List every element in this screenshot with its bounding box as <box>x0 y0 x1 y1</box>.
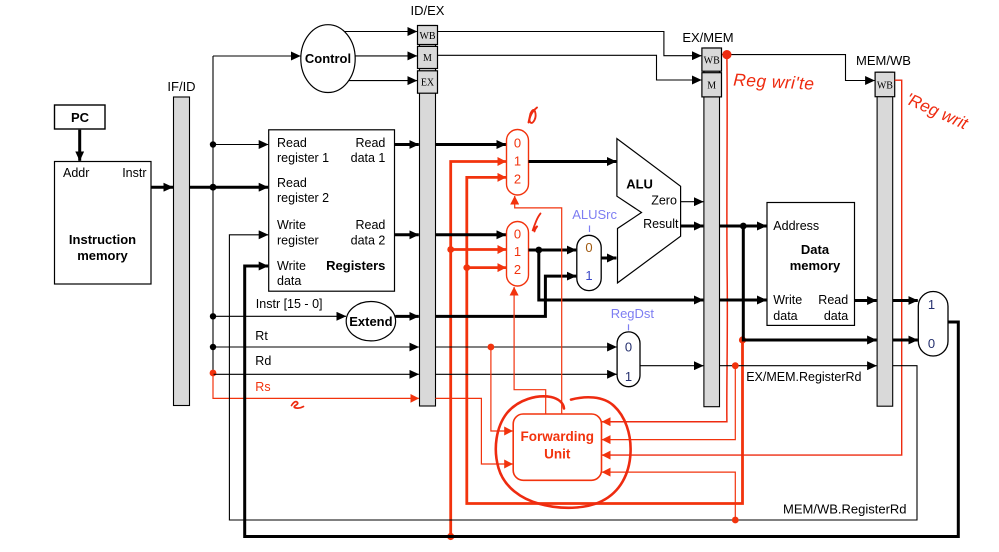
RegDst mux <box>617 332 640 387</box>
pipeline register IF/ID <box>174 97 190 406</box>
node red junction mux B input 1 <box>447 246 454 253</box>
registers box <box>269 130 395 291</box>
wire ForwardA select to mux A <box>515 196 562 414</box>
svg-text:1: 1 <box>928 297 935 312</box>
svg-text:Addr: Addr <box>63 166 89 180</box>
node red junction MEM/WB.RegisterRd tap <box>732 517 739 524</box>
svg-text:1: 1 <box>585 268 592 283</box>
wire ForwardB select to mux B <box>514 287 546 414</box>
svg-text:Reg wri'te: Reg wri'te <box>733 70 815 94</box>
wire writeback loop to registers write data <box>245 266 959 537</box>
control unit oval <box>301 25 355 93</box>
ALUSrc mux <box>577 235 601 290</box>
node red junction Rt forward tap <box>488 344 495 351</box>
svg-text:data: data <box>773 309 797 323</box>
svg-text:ALUSrc: ALUSrc <box>572 207 617 222</box>
svg-text:RegDst: RegDst <box>611 306 655 321</box>
node junction Rs red <box>210 370 217 377</box>
wire store data down to EX/MEM <box>539 250 704 300</box>
wire Control to ID/EX WB <box>344 31 417 33</box>
svg-text:0: 0 <box>928 336 935 351</box>
wire ALU result pass to MEM/WB <box>743 226 876 340</box>
hand red dot on EX/MEM WB output <box>722 50 731 59</box>
ID/EX EX field box <box>418 71 438 93</box>
svg-text:Read: Read <box>818 293 848 307</box>
wire branch to mux B input 1 <box>451 248 506 251</box>
PC box <box>55 105 106 129</box>
pipeline register EX/MEM <box>704 48 720 407</box>
wire ALU Zero to EX/MEM <box>681 201 704 203</box>
svg-text:Rd: Rd <box>255 354 271 368</box>
wire RegDst output to EX/MEM <box>640 365 703 367</box>
wire mux B output to ALUSrc mux input 0 <box>529 249 577 252</box>
wire ID/EX M to EX/MEM M <box>438 55 702 80</box>
node instruction bus junction <box>210 184 217 191</box>
MEM/WB WB field box <box>875 72 895 97</box>
wire extend output through ID/EX to ALUSrc input 1 <box>395 315 419 318</box>
svg-text:Registers: Registers <box>326 258 385 273</box>
svg-text:ID/EX: ID/EX <box>411 3 445 18</box>
wire MEM/WB read data to writeback mux 1 <box>893 299 918 302</box>
svg-text:MEM/WB: MEM/WB <box>856 53 911 68</box>
wire ALUSrc output to ALU <box>601 257 616 260</box>
wire Rd to ID/EX <box>213 373 419 375</box>
wire Rs red to ID/EX <box>213 373 419 398</box>
svg-text:Instr [15 - 0]: Instr [15 - 0] <box>256 297 323 311</box>
hand wire RegWrite MEM/WB down to forwarding unit <box>602 80 902 455</box>
svg-text:Forwarding: Forwarding <box>521 429 595 444</box>
wire MEM/WB.RegisterRd tap up to forwarding unit <box>602 472 735 520</box>
ID/EX M field box <box>418 46 438 68</box>
svg-text:M: M <box>707 81 716 92</box>
node junction on address wire <box>740 223 747 230</box>
svg-text:WB: WB <box>704 56 720 67</box>
svg-text:0: 0 <box>585 240 592 255</box>
EX/MEM M field box <box>702 73 722 97</box>
svg-text:register 2: register 2 <box>277 191 329 205</box>
svg-text:data 1: data 1 <box>351 151 386 165</box>
svg-text:data: data <box>824 309 848 323</box>
pipeline register ID/EX <box>420 26 436 407</box>
wire MEM/WB.RegisterRd loop to write register <box>229 235 917 520</box>
wire MEM/WB forward value (thick red) to mux inputs 1 <box>451 162 506 537</box>
forwarding unit box <box>513 414 601 480</box>
svg-text:2: 2 <box>514 172 521 187</box>
wire EX/MEM address to data memory <box>720 225 767 228</box>
hand tick right of mux B <box>533 214 541 232</box>
wire Rs right of ID/EX down to forwarding unit <box>436 398 513 464</box>
svg-text:IF/ID: IF/ID <box>167 79 195 94</box>
wire EX/MEM.RegisterRd to MEM/WB <box>720 365 877 367</box>
svg-text:1: 1 <box>514 244 521 259</box>
svg-text:WB: WB <box>877 81 893 92</box>
svg-text:Rt: Rt <box>255 329 268 343</box>
svg-text:register: register <box>277 234 319 248</box>
wire bus to Read register 1 <box>213 144 268 146</box>
instruction memory <box>55 162 152 285</box>
svg-text:MEM/WB.RegisterRd: MEM/WB.RegisterRd <box>783 502 907 517</box>
wire mux A output to ALU <box>529 160 617 163</box>
svg-text:Write: Write <box>277 259 306 273</box>
svg-text:Read: Read <box>356 218 386 232</box>
wire Rd right of ID/EX to RegDst 1 <box>436 373 617 375</box>
svg-text:EX/MEM.RegisterRd: EX/MEM.RegisterRd <box>746 370 861 384</box>
svg-text:data: data <box>277 274 301 288</box>
svg-text:1: 1 <box>625 369 632 384</box>
sign extend oval <box>346 302 395 341</box>
svg-text:EX/MEM: EX/MEM <box>682 30 733 45</box>
svg-text:Instr: Instr <box>122 166 146 180</box>
node red junction EX/MEM.RegisterRd tap <box>732 362 739 369</box>
ID/EX WB field box <box>418 26 438 45</box>
wire instruction bus IF/ID to Read register 2 <box>190 186 269 189</box>
wire Control to ID/EX EX <box>349 80 417 82</box>
svg-text:memory: memory <box>790 258 841 273</box>
wire EX/MEM forward value (thick red) to mux inputs 2 <box>467 177 743 503</box>
svg-text:Address: Address <box>773 219 819 233</box>
node red junction on writeback line <box>447 533 454 540</box>
wire PC to Instruction memory <box>78 130 81 161</box>
node red junction on EX/MEM result line <box>739 336 746 343</box>
wire Control to ID/EX M <box>355 55 417 57</box>
wire Read data 1 to ID/EX <box>395 143 419 146</box>
wire ID/EX WB to EX/MEM WB <box>438 32 702 56</box>
wire instruction memory to IF/ID <box>151 186 173 189</box>
wire read data to MEM/WB <box>855 299 877 302</box>
wire EX/MEM write data to data memory <box>720 299 767 302</box>
node red junction mux B input 2 <box>463 264 470 271</box>
forward mux A <box>507 130 529 196</box>
node junction instr 15-0 <box>210 313 216 319</box>
wire Rt right of ID/EX to RegDst 0 <box>436 346 617 348</box>
svg-text:ALU: ALU <box>626 177 653 192</box>
svg-text:Read: Read <box>277 136 307 150</box>
svg-text:0: 0 <box>514 227 521 242</box>
wire RegDst label tick <box>628 324 630 330</box>
svg-text:PC: PC <box>71 110 90 125</box>
svg-text:Instruction: Instruction <box>69 232 136 247</box>
svg-text:Control: Control <box>305 51 351 66</box>
hand squiggle on Rs wire <box>292 402 304 408</box>
ALU <box>617 139 681 283</box>
wire Rt to ID/EX <box>213 346 419 348</box>
svg-text:0: 0 <box>625 340 632 355</box>
wire branch to mux B input 2 <box>467 266 506 269</box>
svg-text:1: 1 <box>514 154 521 169</box>
svg-text:M: M <box>423 53 432 64</box>
wire ID/EX read data 1 to forward mux A input 0 <box>436 143 507 146</box>
wire Read data 2 to ID/EX <box>395 233 419 236</box>
writeback mux <box>918 292 948 357</box>
svg-text:2: 2 <box>514 262 521 277</box>
wire ALU Result to EX/MEM <box>681 225 704 228</box>
svg-text:Extend: Extend <box>349 314 392 329</box>
svg-text:Zero: Zero <box>651 194 677 208</box>
wire ALUSrc label tick <box>589 226 591 233</box>
svg-text:register 1: register 1 <box>277 151 329 165</box>
node junction Rt <box>210 344 216 350</box>
node junction mux B output <box>535 247 542 254</box>
svg-text:memory: memory <box>77 248 128 263</box>
svg-text:Read: Read <box>356 136 386 150</box>
data memory box <box>767 203 855 326</box>
svg-text:data 2: data 2 <box>351 234 386 248</box>
svg-text:0: 0 <box>514 136 521 151</box>
node junction read register 1 <box>210 141 216 147</box>
wire bus to Control <box>213 55 300 57</box>
svg-text:Result: Result <box>643 217 679 231</box>
wire Rt tap down to forwarding unit <box>491 347 513 431</box>
svg-text:Write: Write <box>773 293 802 307</box>
svg-text:Rs: Rs <box>255 380 270 394</box>
wire vertical instruction field bus <box>212 56 214 374</box>
wire MEM/WB result to writeback mux 0 <box>893 339 918 342</box>
wire EX/MEM.RegisterRd tap down to forwarding unit <box>602 366 735 440</box>
svg-text:Write: Write <box>277 218 306 232</box>
wire Instr 15-0 to extend <box>213 315 346 317</box>
svg-text:Data: Data <box>801 242 830 257</box>
svg-text:Unit: Unit <box>544 447 571 462</box>
wire ID/EX read data 2 to forward mux B input 0 <box>436 233 507 236</box>
forward mux B <box>507 222 529 287</box>
pipeline register MEM/WB <box>877 72 893 406</box>
svg-text:WB: WB <box>419 31 435 42</box>
hand wire RegWrite EX/MEM down to forwarding unit <box>602 58 727 422</box>
hand ellipse around forwarding unit <box>496 396 631 507</box>
EX/MEM WB field box <box>702 48 722 71</box>
svg-text:EX: EX <box>421 78 435 89</box>
hand tick above mux A <box>529 108 538 123</box>
svg-text:Read: Read <box>277 176 307 190</box>
wire EX/MEM WB to MEM/WB WB <box>722 55 875 81</box>
